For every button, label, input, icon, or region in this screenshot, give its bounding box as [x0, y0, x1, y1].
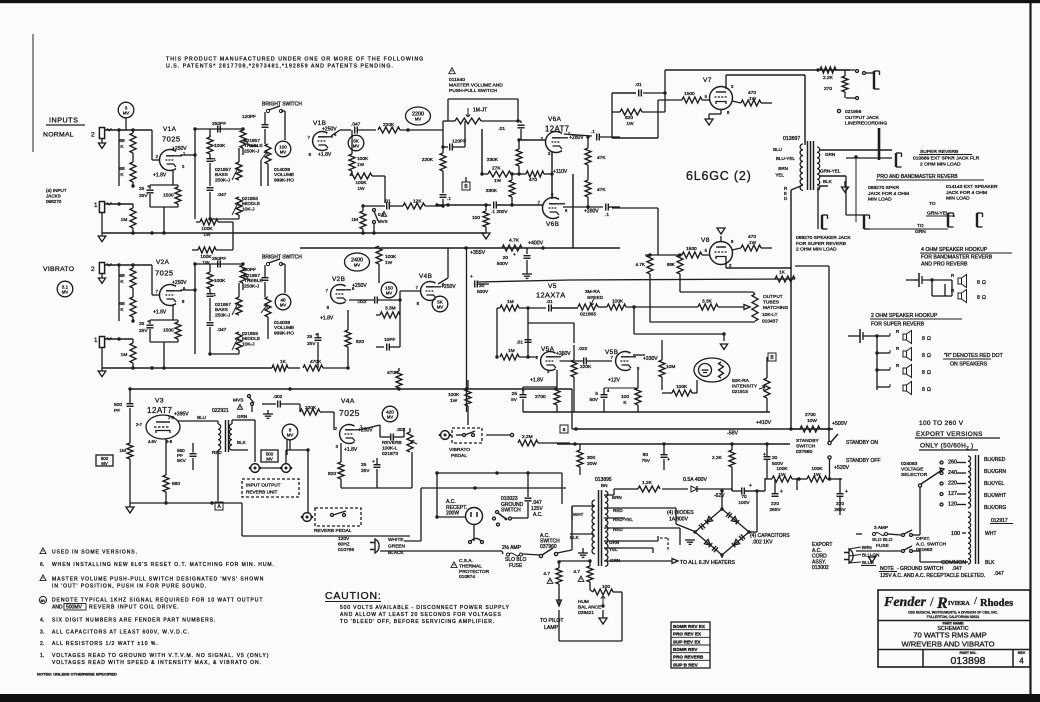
svg-text:470: 470 — [748, 90, 756, 96]
svg-text:265V: 265V — [769, 507, 781, 513]
svg-text:MV: MV — [280, 302, 286, 307]
svg-text:100 TO 260 V: 100 TO 260 V — [919, 420, 964, 427]
svg-text:BAL ANCE: BAL ANCE — [578, 604, 601, 610]
svg-text:U.S. PATENTS* 2817708,*2973481: U.S. PATENTS* 2817708,*2973481,*192859 A… — [166, 64, 394, 70]
svg-text:2: 2 — [91, 132, 95, 139]
svg-text:INPUTS: INPUTS — [49, 116, 78, 125]
svg-text:3 AMP: 3 AMP — [874, 525, 888, 531]
svg-text:JACKS: JACKS — [46, 194, 61, 199]
svg-text:4 OHM SPEAKER HOOKUP: 4 OHM SPEAKER HOOKUP — [921, 247, 988, 253]
svg-text:MIDDLE: MIDDLE — [242, 336, 260, 342]
svg-text:THERMAL: THERMAL — [459, 563, 482, 569]
opst switch contacts — [902, 534, 905, 537]
bus bias rail — [477, 280, 570, 282]
svg-text:GRN: GRN — [237, 414, 247, 419]
svg-text:068270 SPKR: 068270 SPKR — [868, 185, 899, 191]
svg-text:V4A: V4A — [341, 398, 355, 405]
svg-text:100K: 100K — [811, 466, 823, 472]
svg-text:1500: 1500 — [163, 193, 174, 199]
svg-text:.1: .1 — [212, 157, 216, 163]
svg-text:60HZ: 60HZ — [338, 542, 350, 548]
svg-text:100K-L: 100K-L — [382, 445, 398, 451]
svg-text:8: 8 — [977, 280, 980, 286]
speaker 8ohm E — [903, 368, 907, 374]
AC switch contacts — [539, 554, 542, 557]
svg-text:V7: V7 — [703, 77, 712, 84]
speaker jacks bottom row — [821, 215, 823, 229]
svg-text:70: 70 — [741, 494, 747, 500]
wires GRN YEL heater long — [620, 540, 658, 542]
svg-text:220K: 220K — [383, 122, 395, 128]
svg-text:100K: 100K — [201, 226, 213, 232]
svg-text:1500: 1500 — [684, 91, 695, 97]
svg-text:+1.8V: +1.8V — [530, 378, 544, 384]
svg-text:7025: 7025 — [155, 269, 174, 278]
svg-text:MV: MV — [386, 290, 392, 295]
svg-text:014143 EXT SPEAKER: 014143 EXT SPEAKER — [946, 184, 998, 190]
svg-text:.047: .047 — [952, 566, 962, 572]
svg-text:GREEN: GREEN — [388, 544, 406, 550]
svg-text:FULLERTON, CALIFORNIA 92631: FULLERTON, CALIFORNIA 92631 — [927, 615, 980, 619]
svg-text:1.: 1. — [40, 653, 44, 659]
svg-text:1M: 1M — [508, 348, 515, 354]
svg-text:SELECTOR: SELECTOR — [901, 472, 928, 478]
svg-text:25V: 25V — [307, 341, 316, 347]
capacitor .1 200V PI — [437, 204, 491, 206]
svg-text:270: 270 — [824, 86, 832, 92]
svg-text:100V: 100V — [738, 500, 750, 506]
svg-text:013002: 013002 — [812, 565, 829, 571]
wire 68k junction to jack1 line — [118, 130, 120, 186]
warning triangle heater B — [578, 576, 584, 581]
resistor 220K V5 — [571, 360, 577, 377]
svg-text:PROTECTOR: PROTECTOR — [459, 569, 490, 575]
svg-text:BRIGHT SWITCH: BRIGHT SWITCH — [262, 255, 302, 261]
svg-text:+: + — [749, 483, 752, 489]
svg-text:MV: MV — [101, 461, 108, 466]
ground chassis reverb — [263, 413, 273, 415]
svg-text:1M: 1M — [119, 448, 126, 454]
svg-text:MV: MV — [280, 149, 286, 154]
svg-text:10W: 10W — [807, 418, 817, 424]
svg-text:120PF: 120PF — [242, 267, 256, 273]
wire 68K to matching pot — [679, 279, 681, 292]
wire cathode join V6 — [551, 151, 553, 199]
node MV5K callout — [348, 135, 364, 151]
svg-text:Ω: Ω — [982, 280, 986, 286]
warning triangle heater A — [547, 578, 553, 583]
svg-text:MV: MV — [437, 304, 443, 309]
svg-text:125V A.C. AND A.C. RECEPTACLE: 125V A.C. AND A.C. RECEPTACLE DELETED. — [880, 573, 985, 579]
svg-text:20: 20 — [772, 455, 778, 461]
tube V6B — [542, 198, 559, 219]
node MV5K2 callout — [432, 296, 448, 312]
svg-text:200W: 200W — [446, 511, 459, 517]
resistor 100K 1W V2B load — [376, 246, 382, 264]
revision table — [671, 622, 710, 668]
svg-text:220: 220 — [771, 501, 779, 507]
svg-text:Ω: Ω — [927, 370, 931, 376]
boxed 500 MV 2 — [261, 450, 278, 462]
hookup wiring 4ohm — [922, 279, 952, 281]
wire reverb return up — [286, 440, 288, 455]
vertical bold jack stub — [878, 128, 881, 160]
svg-text:V8: V8 — [701, 237, 710, 244]
svg-text:68: 68 — [119, 273, 125, 279]
wire receptacle left lead — [437, 516, 466, 518]
export transformer core — [975, 455, 977, 564]
capacitor .1 divider — [442, 171, 444, 193]
svg-text:75V: 75V — [641, 458, 650, 464]
svg-text:820: 820 — [328, 471, 336, 477]
ground chassis transformer — [582, 548, 584, 553]
svg-text:68: 68 — [119, 301, 125, 307]
svg-text:ALL RESISTORS 1/2 WATT ±10 %.: ALL RESISTORS 1/2 WATT ±10 %. — [52, 641, 159, 647]
ground chassis bridge — [685, 539, 695, 541]
svg-text:260: 260 — [948, 460, 957, 466]
svg-text:.01: .01 — [516, 340, 523, 346]
svg-text:8: 8 — [977, 295, 980, 301]
svg-text:70 WATTS RMS AMP: 70 WATTS RMS AMP — [913, 631, 986, 640]
svg-text:BDMR REV EX: BDMR REV EX — [673, 624, 706, 629]
svg-text:BASS: BASS — [215, 172, 228, 178]
voltage selector arm — [921, 470, 942, 484]
ground arrow normal bus — [101, 213, 103, 233]
node MV420 callout — [382, 406, 398, 422]
svg-text:FOR SUPER REVERB: FOR SUPER REVERB — [796, 241, 846, 247]
svg-text:R: R — [936, 595, 948, 612]
ground arrow V8 cathode up — [720, 236, 722, 242]
wires supply filter — [765, 478, 772, 480]
svg-text:.047: .047 — [351, 122, 361, 128]
svg-text:.1: .1 — [212, 292, 216, 298]
svg-text:8: 8 — [922, 336, 925, 342]
AC rail 2 — [421, 487, 566, 489]
svg-text:+355V: +355V — [470, 250, 486, 256]
svg-text:A.C.: A.C. — [533, 512, 543, 518]
svg-text:330K: 330K — [487, 157, 499, 163]
ground switch contacts — [496, 511, 499, 514]
svg-text:R: R — [896, 346, 899, 351]
svg-text:IVIERA: IVIERA — [948, 601, 970, 607]
svg-text:PF: PF — [114, 408, 120, 414]
wire from jack field to standby — [795, 265, 829, 267]
resistor 10M — [659, 360, 665, 377]
ground arrow below jack J4 — [101, 274, 103, 278]
svg-text:2½ AMP: 2½ AMP — [502, 544, 522, 551]
svg-text:10M: 10M — [666, 364, 675, 370]
svg-text:MV: MV — [123, 110, 129, 115]
svg-text:68: 68 — [119, 138, 125, 144]
svg-text:.01: .01 — [498, 126, 505, 132]
wire V8 plate — [725, 258, 727, 268]
svg-text:V5: V5 — [548, 283, 557, 290]
svg-text:VOLTAGES READ WITH SPEED & INT: VOLTAGES READ WITH SPEED & INTENSITY MAX… — [52, 660, 262, 666]
svg-text:MV: MV — [387, 414, 393, 419]
wire reverb tx to jack — [248, 419, 255, 421]
svg-text:MV: MV — [62, 289, 68, 294]
svg-text:5: 5 — [595, 391, 598, 397]
svg-text:MIDDLE: MIDDLE — [242, 201, 260, 207]
switch MVS — [373, 209, 376, 212]
svg-text:240: 240 — [948, 470, 957, 476]
svg-text:2-7: 2-7 — [136, 422, 143, 427]
svg-text:1W: 1W — [357, 162, 365, 168]
svg-text:BRN: BRN — [778, 166, 788, 171]
wire OT secondary taps — [820, 149, 892, 151]
svg-text:68K: 68K — [667, 262, 676, 267]
ground arrow below jack J2 — [101, 139, 103, 143]
svg-text:PRO AND BANDMASTER REVERB: PRO AND BANDMASTER REVERB — [877, 174, 958, 180]
wire jack4 to grid vibrato — [104, 264, 152, 266]
svg-text:6L6GC (2): 6L6GC (2) — [686, 169, 752, 183]
svg-text:VIBRATO: VIBRATO — [449, 447, 470, 453]
label 021956 OUTPUT JACK LINE/RECORDING — [837, 109, 840, 112]
svg-text:D: D — [784, 196, 787, 201]
wire grid V2A — [151, 265, 153, 295]
wire volume to V1B grid — [260, 160, 262, 186]
note mv denote — [39, 596, 46, 603]
resistor 100K 1W mixer 2 — [192, 249, 198, 251]
svg-text:FOR SUPER REVERB: FOR SUPER REVERB — [871, 322, 925, 328]
svg-text:BLU: BLU — [773, 147, 782, 152]
svg-text:+500V: +500V — [832, 421, 848, 427]
svg-text:+1.8V: +1.8V — [320, 316, 334, 322]
svg-text:1500: 1500 — [163, 328, 174, 334]
svg-text:0.5A 400V: 0.5A 400V — [683, 477, 707, 483]
svg-text:SPEED: SPEED — [587, 295, 604, 301]
wire reverb return to pedal node — [285, 450, 287, 463]
svg-text:SUP REV EX: SUP REV EX — [673, 639, 701, 644]
svg-text:7025: 7025 — [162, 135, 181, 144]
svg-text:MV: MV — [415, 117, 421, 122]
svg-text:1M: 1M — [121, 217, 128, 223]
wire between reverb jacks — [261, 467, 280, 469]
svg-text:BRN: BRN — [612, 495, 622, 500]
svg-text:011540: 011540 — [449, 77, 465, 83]
svg-text:1W: 1W — [450, 398, 458, 404]
svg-text:WHITE: WHITE — [388, 537, 403, 543]
svg-text:021855: 021855 — [242, 331, 258, 337]
wire selector to fuse — [919, 487, 921, 520]
svg-text:MVS: MVS — [233, 398, 243, 404]
optocoupler lamp and LDR — [694, 358, 730, 382]
node MV2200 callout — [406, 107, 431, 125]
ground arrow vibrato bus — [101, 348, 103, 368]
boxed node B intensity — [768, 353, 776, 361]
svg-text:REVERB: REVERB — [382, 440, 402, 446]
svg-text:2.: 2. — [40, 641, 44, 647]
reverb transformer — [178, 420, 218, 422]
svg-text:THIS PRODUCT MANUFACTURED UNDE: THIS PRODUCT MANUFACTURED UNDER ONE OR M… — [166, 57, 424, 63]
note 5 master volume — [40, 575, 46, 581]
wire pilot bottom — [558, 634, 560, 641]
wire jack2 to grid — [104, 129, 152, 131]
svg-text:2700: 2700 — [535, 394, 546, 400]
svg-text:25V: 25V — [139, 193, 148, 199]
svg-text:8: 8 — [922, 353, 925, 359]
wire bus to reverb unit bottom — [241, 503, 243, 536]
svg-text:+1.8V: +1.8V — [318, 152, 332, 158]
main B+ bus — [130, 388, 572, 390]
svg-text:3.3M: 3.3M — [385, 306, 396, 312]
svg-text:820: 820 — [356, 339, 364, 345]
svg-text:JACK FOR 4 OHM: JACK FOR 4 OHM — [946, 190, 987, 196]
title block divider 1 — [878, 620, 1030, 622]
rca jack reverb pedal — [303, 513, 312, 522]
svg-text:4.: 4. — [40, 618, 44, 624]
svg-text:1: 1 — [94, 202, 98, 209]
svg-text:100K: 100K — [214, 278, 226, 284]
svg-text:V3: V3 — [155, 398, 164, 405]
svg-text:BLK: BLK — [823, 179, 833, 184]
svg-text:R: R — [896, 363, 899, 368]
svg-text:220: 220 — [948, 481, 957, 487]
wire grid V1A — [151, 130, 153, 160]
svg-text:68: 68 — [119, 166, 125, 172]
wires osc frame — [496, 308, 498, 357]
svg-text:ONLY (50/60H: ONLY (50/60H — [920, 443, 966, 450]
ground arrow V3 — [129, 503, 131, 507]
svg-text:12AT7: 12AT7 — [147, 406, 173, 415]
svg-text:NORMAL: NORMAL — [43, 132, 74, 139]
svg-text:4.7: 4.7 — [543, 571, 550, 577]
svg-text:25: 25 — [512, 391, 518, 397]
svg-text:BLK/RED: BLK/RED — [984, 457, 1006, 463]
potentiometer VOLUME 999K-HO vibrato — [264, 293, 266, 297]
svg-text:V6A: V6A — [548, 116, 562, 123]
power transformer secondary — [605, 491, 608, 566]
svg-text:WHT: WHT — [573, 512, 584, 517]
border left partial line — [32, 34, 34, 152]
svg-text:SWITCH: SWITCH — [501, 508, 521, 514]
svg-text:Ω: Ω — [927, 387, 931, 393]
svg-text:Ω: Ω — [927, 353, 931, 359]
svg-text:1W: 1W — [202, 260, 210, 266]
svg-text:R: R — [951, 273, 954, 278]
svg-text:.01: .01 — [546, 299, 553, 305]
svg-text:PUSH-PULL SWITCH: PUSH-PULL SWITCH — [449, 88, 497, 94]
svg-text:80: 80 — [643, 452, 649, 458]
svg-text:OUTPUT: OUTPUT — [763, 294, 783, 300]
svg-text:061663: 061663 — [916, 547, 933, 553]
svg-text:LAMP: LAMP — [544, 625, 559, 631]
svg-text:5KV: 5KV — [177, 458, 187, 463]
svg-text:GRN: GRN — [915, 229, 926, 235]
output transformer windings — [800, 144, 803, 190]
svg-text:MASTER VOLUME AND: MASTER VOLUME AND — [449, 83, 503, 89]
svg-text:BLU-YEL: BLU-YEL — [776, 156, 796, 161]
svg-text:2.2K: 2.2K — [712, 455, 723, 461]
svg-text:(4) CAPACITORS: (4) CAPACITORS — [750, 533, 790, 539]
svg-text:028421: 028421 — [578, 610, 594, 616]
AC lower wires — [380, 550, 502, 552]
wire PI to V7 — [612, 137, 658, 139]
svg-text:3M-RA: 3M-RA — [585, 289, 601, 295]
svg-text:EXPORT VERSIONS: EXPORT VERSIONS — [916, 431, 983, 438]
jack line/recording — [873, 71, 875, 89]
resistor 100K 1W mixer normal — [196, 221, 200, 223]
svg-text:250PF: 250PF — [212, 256, 226, 262]
svg-text:R: R — [951, 288, 954, 293]
svg-text:250K-J: 250K-J — [215, 312, 231, 318]
svg-text:FUSE: FUSE — [509, 563, 523, 569]
receptacle circle — [466, 508, 483, 525]
svg-text:021873: 021873 — [382, 451, 398, 457]
svg-text:25V: 25V — [361, 468, 370, 474]
svg-text:PEDAL: PEDAL — [451, 453, 467, 459]
svg-text:8: 8 — [922, 370, 925, 376]
svg-text:V2A: V2A — [156, 259, 170, 266]
svg-text:TO PILOT: TO PILOT — [540, 618, 564, 624]
ground arrow jack field — [844, 181, 846, 187]
jack super reverb ext — [895, 153, 897, 167]
svg-text:SUP B REV: SUP B REV — [673, 662, 699, 667]
svg-text:100K: 100K — [676, 384, 688, 390]
svg-text:Rhodes: Rhodes — [980, 598, 1013, 609]
svg-text:068270: 068270 — [46, 199, 62, 204]
svg-text:ALL CAPACITORS AT LEAST 600V,: ALL CAPACITORS AT LEAST 600V, W.V.D.C. — [52, 630, 190, 636]
svg-text:INPUT OUTPUT: INPUT OUTPUT — [246, 483, 281, 488]
svg-text:021855: 021855 — [242, 196, 258, 202]
svg-text:8: 8 — [922, 387, 925, 393]
title block part no box — [922, 650, 924, 668]
fuse symbol — [507, 553, 510, 556]
svg-text:1W: 1W — [357, 186, 365, 192]
svg-text:-62V: -62V — [714, 493, 725, 499]
svg-text:.047: .047 — [217, 327, 227, 333]
border top bar — [0, 0, 1040, 3]
svg-text:+1.8V: +1.8V — [153, 173, 167, 179]
svg-text:220K: 220K — [422, 157, 434, 163]
svg-text:JACK FOR 4 OHM: JACK FOR 4 OHM — [868, 191, 909, 197]
svg-text:120PF: 120PF — [452, 139, 466, 145]
svg-text:SLO BLO: SLO BLO — [872, 537, 893, 543]
border bottom bar — [0, 694, 1040, 702]
svg-text:TO: TO — [929, 201, 936, 207]
svg-text:Ω: Ω — [927, 336, 931, 342]
svg-text:V4B: V4B — [419, 273, 432, 280]
node MV callout vibrato — [57, 281, 73, 297]
wires AC input — [404, 540, 421, 542]
svg-text:3-8: 3-8 — [166, 439, 173, 444]
svg-text:FUSE: FUSE — [876, 543, 889, 549]
wire OT primary bottom — [726, 267, 791, 269]
svg-text:100K: 100K — [776, 466, 788, 472]
svg-text:RED: RED — [613, 508, 623, 513]
thermal protector symbol — [469, 541, 472, 544]
svg-text:10PF: 10PF — [384, 337, 396, 343]
resistor 100K tone normal — [209, 135, 211, 137]
svg-text:BLK/WHT: BLK/WHT — [984, 493, 1006, 499]
resistor 68K bias feed — [677, 255, 683, 274]
svg-text:100: 100 — [472, 215, 480, 221]
svg-text:VIBRATO: VIBRATO — [43, 266, 74, 273]
svg-text:STANDBY OFF: STANDBY OFF — [846, 458, 881, 464]
svg-text:4.7K: 4.7K — [636, 262, 646, 267]
svg-text:BLK: BLK — [985, 560, 995, 566]
svg-text:037960: 037960 — [540, 544, 557, 550]
svg-text:680: 680 — [172, 481, 180, 487]
dashed box REVERB PEDAL — [315, 508, 361, 526]
wire +355V down rail — [466, 248, 468, 412]
svg-text:021857: 021857 — [215, 167, 231, 173]
svg-text:+250V: +250V — [556, 351, 571, 357]
svg-text:MV: MV — [266, 457, 273, 462]
export AC plug — [849, 549, 853, 563]
svg-text:+520V: +520V — [834, 465, 850, 471]
wire mixer join — [232, 222, 234, 250]
